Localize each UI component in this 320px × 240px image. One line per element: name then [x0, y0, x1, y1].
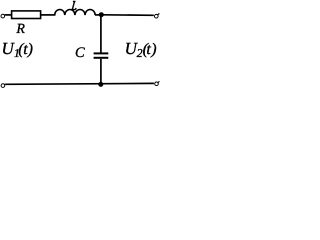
wire capacitor top lead	[100, 15, 102, 53]
terminal top-right	[155, 14, 160, 19]
wire L to node	[95, 14, 102, 16]
node junction top	[99, 12, 104, 17]
inductor L1	[55, 9, 95, 15]
resistor R1 box	[12, 11, 41, 19]
wire bottom	[5, 82, 154, 85]
capacitor C1 bottom plate	[94, 57, 109, 59]
wire node to right terminal	[103, 14, 154, 17]
terminal bottom-right	[155, 81, 160, 85]
terminal bottom-left	[1, 84, 6, 88]
node junction bottom	[98, 82, 103, 87]
terminal top-left	[1, 14, 6, 18]
label L	[71, 2, 76, 10]
capacitor C1 top plate	[94, 52, 109, 54]
svg-text:R: R	[15, 22, 25, 37]
svg-text:C: C	[75, 45, 85, 61]
wire R to L	[41, 14, 56, 16]
wire top-left	[5, 14, 12, 16]
wire capacitor bottom lead	[100, 59, 102, 85]
